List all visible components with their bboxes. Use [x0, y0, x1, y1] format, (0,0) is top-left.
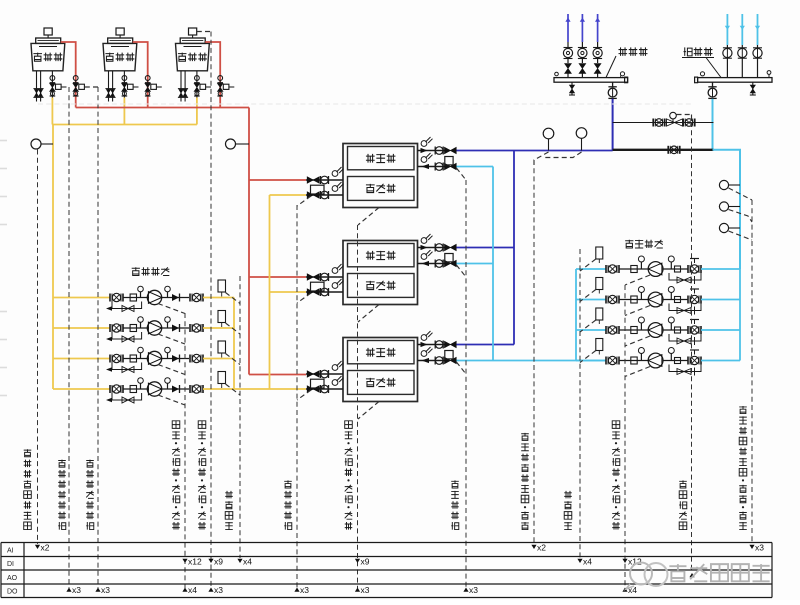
- chilled pump P3 small box: [675, 327, 681, 333]
- chiller CH2 condenser outlet pipe: [306, 291, 343, 293]
- DO point x3 tower inlet valves: [95, 588, 100, 592]
- svg-text:x2: x2: [41, 543, 50, 553]
- chilled pump row 4 stub to riser (cyan): [701, 360, 740, 362]
- chiller CH2 status signal: [358, 305, 379, 323]
- chiller CH3 condenser outlet pipe: [306, 388, 343, 390]
- chilled pump row 4 pipe: [619, 360, 648, 362]
- cooling tower CT1 drain legs: [36, 71, 38, 102]
- vertical label 水流状态: [564, 522, 572, 530]
- chiller CH1 cond outlet joint: [320, 191, 322, 199]
- cooling supply temp sensor T2: [226, 139, 236, 149]
- cooling pump P1 flow switch: [218, 280, 226, 292]
- chilled pump P2 bypass: [669, 304, 701, 311]
- cooling pump P2 check valve: [172, 325, 179, 332]
- cooling return header from towers (yellow): [52, 124, 197, 126]
- svg-text:AO: AO: [7, 575, 18, 582]
- chilled pump P4 discharge valve: [687, 357, 689, 365]
- cooling pump row 4 suction stub (yellow): [53, 388, 110, 390]
- DO point x4 chilled pumps: [622, 588, 627, 592]
- distributor branch 1 pipe (blue): [567, 14, 569, 42]
- chiller CH1 evaporator box: [348, 147, 415, 170]
- interconnect valve: [667, 146, 669, 154]
- svg-text:x3: x3: [72, 585, 81, 595]
- DI point x12 cooling pumps: [182, 559, 187, 563]
- red branch to chiller 3 condenser: [249, 374, 306, 376]
- signal stub tower CT1 inlet valve: [85, 86, 98, 88]
- yellow branch to chiller 2 condenser: [270, 291, 307, 293]
- faint left margin mark: [0, 196, 7, 198]
- chilled pump P2 discharge valve: [687, 296, 689, 304]
- cooling tower CT1 lid: [36, 38, 61, 43]
- chilled pump P4 small box: [675, 358, 681, 364]
- svg-text:x3: x3: [214, 585, 223, 595]
- cooling pump P1 discharge gauge: [167, 292, 169, 298]
- chilled pump P3 discharge valve: [687, 326, 689, 334]
- distributor label: [619, 47, 628, 56]
- signal stub tower CT3 outlet valve: [206, 86, 211, 88]
- DI point x9 tower fans: [208, 559, 213, 563]
- vertical label 冷冻水回水温度、压力、流量: [739, 522, 747, 530]
- cooling tower CT1 outlet pipe: [51, 71, 53, 98]
- chiller CH1 evap inlet pipe: [418, 166, 446, 168]
- chilled pump row 3 suction stub (cyan): [576, 329, 606, 331]
- chiller CH2 cond thermowell 1: [332, 268, 338, 274]
- flow switch 4 signal: [226, 384, 241, 395]
- chiller CH1 status signal: [358, 208, 379, 226]
- cooling pump P2 flow switch: [218, 311, 226, 323]
- chilled return riser (cyan): [492, 167, 494, 361]
- collector branch 3 valve: [757, 45, 759, 48]
- faint left margin mark: [0, 224, 7, 226]
- chiller CH3 evap outlet arrow: [421, 342, 428, 347]
- AI point x2 cooling temps: [35, 545, 40, 549]
- distributor sensor: [620, 72, 624, 76]
- chiller CH1 evap inlet valve: [445, 163, 457, 169]
- vertical label 状态、手自动、故障、启停: [612, 522, 620, 530]
- chilled supply pressure sensor: [576, 128, 587, 139]
- svg-text:x3: x3: [300, 585, 309, 595]
- cooling tower CT2 body: [103, 43, 137, 70]
- chiller CH2 evap thermowell 2: [421, 254, 427, 260]
- chilled pump row 1 stub to riser (cyan): [701, 268, 740, 270]
- cooling pump signal column joiner: [210, 302, 212, 304]
- svg-text:x3: x3: [361, 585, 370, 595]
- chiller CH1 evap outlet pipe: [418, 150, 446, 152]
- chiller CH3 casing: [343, 338, 418, 402]
- signal column condenser butterfly valve: [296, 205, 298, 588]
- yellow riser to condensers: [269, 195, 271, 389]
- cooling return temp sensor T1: [31, 139, 41, 149]
- chilled pump P2 status signal: [625, 306, 650, 316]
- signal column bypass valve control: [691, 122, 693, 573]
- chiller CH2 evap thermowell 1: [421, 238, 427, 244]
- IO table frame: [1, 542, 772, 544]
- cooling pump P4 flow switch: [218, 372, 226, 384]
- svg-text:x2: x2: [537, 543, 546, 553]
- chilled pump P3 flow switch: [596, 308, 603, 320]
- chiller CH3 evap outlet joint: [434, 341, 436, 349]
- chilled flow switch 1 signal: [580, 259, 596, 271]
- DO point x3 tower fans: [208, 588, 213, 592]
- chilled return branch chiller1 (cyan): [457, 166, 494, 168]
- vertical label 旁通阀调节: [679, 522, 687, 530]
- signal column chilled pump status: [624, 285, 626, 588]
- collector label: [684, 47, 693, 56]
- cooling pump P4 discharge valve: [189, 385, 191, 393]
- cooling tower CT1 label: [33, 53, 42, 62]
- vertical label 状态、手自动、故障、启停: [345, 522, 353, 530]
- tower CT3 inlet butterfly valve: [218, 76, 223, 81]
- chilled return main (cyan): [457, 360, 606, 362]
- DI point x9 chillers: [355, 559, 360, 563]
- watermark logo: [630, 563, 652, 585]
- chiller CH3 evap valve signal: [456, 362, 466, 374]
- svg-text:x9: x9: [361, 557, 370, 567]
- chilled supply temp sensor: [543, 128, 554, 139]
- distributor header bar: [554, 78, 628, 83]
- chiller CH1 evap valve signal: [456, 168, 466, 180]
- cooling pump row 2 suction stub (yellow): [53, 327, 110, 329]
- cooling tower CT3 lid: [180, 38, 205, 43]
- chiller CH3 condenser inlet valve: [307, 371, 319, 377]
- chilled supply branch chiller3 (navy): [457, 344, 515, 346]
- chiller CH1 condenser inlet valve: [307, 177, 319, 183]
- distributor branch 1 flowmeter: [567, 42, 569, 49]
- chilled supply drop (navy): [612, 99, 614, 151]
- chilled supply riser (navy): [513, 151, 515, 345]
- cooling pump P2: [147, 321, 161, 335]
- DO point x3 chillers: [355, 588, 360, 592]
- cooling pump P4 status signal: [158, 395, 185, 405]
- distributor branch 2 pipe (blue): [581, 14, 583, 42]
- chiller CH1 condenser box: [348, 177, 415, 201]
- chiller CH2 evap valve actuator: [445, 254, 453, 262]
- chiller CH1 evap inlet arrow: [422, 164, 430, 169]
- chiller CH1 evap thermowell 2: [421, 157, 427, 163]
- chilled pump P1 flow switch: [596, 247, 603, 259]
- cooling tower CT3 drain legs: [180, 71, 182, 102]
- chiller CH3 evap outlet valve: [445, 341, 457, 347]
- chilled pump P3: [648, 323, 663, 338]
- chiller CH2 condenser outlet valve: [307, 289, 319, 295]
- cooling pump P3 flow switch: [218, 341, 226, 353]
- tower CT2 outlet water pipe (yellow): [123, 98, 125, 125]
- chilled pump P3 bypass: [669, 334, 701, 341]
- signal stub tower CT1 outlet valve: [62, 86, 70, 88]
- cooling pump P3 suction gauge: [140, 353, 142, 359]
- cooling pump P4 check valve: [172, 386, 179, 393]
- chilled pump P4 flow switch: [596, 339, 603, 351]
- cooling tower CT3 outlet pipe: [196, 71, 198, 98]
- chiller CH3 evap inlet joint: [434, 357, 436, 365]
- cooling pump discharge header (yellow): [233, 298, 235, 390]
- chilled pump P4 inlet valve: [605, 357, 607, 365]
- chilled pump P1 status signal: [625, 275, 650, 285]
- DO point x4 cooling pumps: [182, 588, 187, 592]
- chilled pump P4 status signal: [625, 367, 650, 377]
- chiller CH3 condenser valve actuator: [311, 379, 325, 388]
- cooling pump P3 discharge valve: [189, 355, 191, 363]
- chilled pump row 2 pipe2: [663, 299, 688, 301]
- cooling tower CT3 fan box: [189, 28, 197, 35]
- cooling pump P3 status signal: [158, 365, 185, 375]
- faint left margin mark: [0, 168, 7, 170]
- chilled pump row 2 stub to riser (cyan): [701, 299, 740, 301]
- AO point bypass valve: [689, 573, 694, 577]
- signal column cooling water flow status: [239, 276, 241, 558]
- distributor branch 3 valve: [597, 59, 599, 64]
- svg-text:x4: x4: [243, 557, 252, 567]
- chiller CH1 evap thermowell 1: [421, 141, 427, 147]
- chiller CH3 evap thermowell 2: [421, 351, 427, 357]
- faint left margin mark: [0, 311, 7, 313]
- tower CT3 outlet water pipe (yellow): [196, 98, 198, 125]
- collector vent: [767, 71, 771, 75]
- chilled pump P3 strainer: [631, 327, 637, 334]
- cooling pump P2 discharge valve: [189, 324, 191, 332]
- signal column cooling pump status: [184, 313, 186, 588]
- collector branch 2 pipe (cyan): [741, 14, 743, 45]
- chilled pump row 1 suction stub (cyan): [576, 268, 606, 270]
- chilled pump row 3 stub to riser (cyan): [701, 329, 740, 331]
- chilled pump P1 small box: [675, 266, 681, 272]
- cooling pumps label: [132, 267, 140, 275]
- distributor branch 1 arrow: [565, 18, 570, 22]
- cooling tower CT2 fan box: [116, 28, 124, 35]
- chiller CH2 condenser inlet pipe: [306, 276, 343, 278]
- svg-text:x3: x3: [101, 585, 110, 595]
- chilled pump P2 flow switch: [596, 278, 603, 290]
- cooling pump P2 suction valve: [109, 324, 111, 332]
- chiller CH2 evap outlet joint: [434, 244, 436, 252]
- chiller CH1 evap outlet arrow: [421, 148, 428, 153]
- chiller CH3 evap outlet pipe: [418, 344, 446, 346]
- flow switch 2 signal: [226, 323, 241, 334]
- cooling pump row 2 pipe2: [162, 327, 189, 329]
- chilled pump P4 gauge 2: [670, 354, 672, 361]
- cooling tower CT3 label: [178, 53, 187, 62]
- chiller CH1 evap outlet joint: [434, 147, 436, 155]
- cooling pump P4: [147, 382, 161, 396]
- main interconnect pipe: [613, 149, 714, 151]
- collector branch 2 arrow: [740, 26, 745, 30]
- vertical label 冷冻水供水温度、压力: [521, 522, 529, 530]
- chilled pumps label: [625, 240, 633, 248]
- svg-text:x4: x4: [188, 585, 197, 595]
- cooling tower CT2 lid: [108, 38, 133, 43]
- chiller CH3 evap inlet valve: [445, 357, 457, 363]
- bypass pipe upper: [613, 122, 714, 124]
- chiller CH3 cond thermowell 1: [332, 365, 338, 371]
- chiller CH2 condenser label: [366, 281, 375, 290]
- cooling pump row 2 discharge stub (yellow): [203, 327, 234, 329]
- cooling tower CT1 body: [31, 43, 65, 70]
- vertical label 冷却塔出水蝶阀: [58, 522, 66, 530]
- chilled return T sensor: [719, 180, 728, 189]
- chilled pump P1 discharge valve: [687, 265, 689, 273]
- chiller CH3 condenser box: [348, 371, 415, 395]
- AI point x3 chilled return: [749, 545, 754, 549]
- chilled pump P1 gauge 2: [670, 262, 672, 269]
- chilled pump P4 strainer: [631, 357, 637, 364]
- chiller CH1 evaporator label: [366, 154, 375, 163]
- chiller CH1 evap valve actuator: [445, 157, 453, 165]
- DO point x3 evaporator valves: [463, 588, 468, 592]
- flow switch 1 signal: [226, 293, 241, 304]
- signal column cooling tower outlet valve: [68, 87, 70, 588]
- distributor outlet valve: [612, 82, 614, 86]
- distributor branch 2 arrow: [580, 18, 585, 22]
- chilled return F sensor: [719, 223, 728, 232]
- tower CT1 outlet water pipe (yellow): [51, 98, 53, 125]
- bypass valve inlet: [652, 119, 654, 127]
- collector branch 3 arrow: [755, 26, 760, 30]
- chiller CH2 evap outlet arrow: [421, 245, 428, 250]
- cooling pump P1 discharge valve: [189, 294, 191, 302]
- chiller CH3 cond valve signal: [297, 390, 311, 400]
- svg-text:x4: x4: [583, 557, 592, 567]
- chilled pump P2: [648, 292, 663, 307]
- signal column chilled supply T/P sensors: [533, 160, 535, 544]
- cooling pump P2 bypass: [112, 332, 142, 339]
- faint left margin mark: [0, 140, 7, 142]
- collector inlet valve: [712, 82, 714, 86]
- chiller CH3 evap inlet pipe: [418, 360, 446, 362]
- vertical label 冷冻水蝶阀: [451, 522, 459, 530]
- chiller CH2 evaporator label: [366, 251, 375, 260]
- DI point x12 chilled pumps: [622, 559, 627, 563]
- cooling pump row 1 pipe2: [162, 297, 189, 299]
- cooling pump P3 check valve: [172, 355, 179, 362]
- svg-text:x3: x3: [755, 543, 764, 553]
- cooling return downcomer (yellow): [52, 125, 54, 390]
- signal stub tower CT2 inlet valve: [157, 86, 164, 88]
- chilled pump row 4 pipe2: [663, 360, 688, 362]
- vertical label 状态、手自动、故障、启停: [172, 522, 180, 530]
- cooling pump row 3 pipe2: [162, 358, 189, 360]
- chilled pump P4 gauge 1: [640, 354, 642, 361]
- chilled return P sensor: [719, 202, 728, 211]
- tower CT3 inlet pipe (red): [205, 42, 220, 108]
- cooling tower CT1 fan box: [44, 28, 52, 35]
- chiller CH2 cond valve signal: [297, 293, 311, 303]
- chilled pump row 3 pipe: [619, 329, 648, 331]
- signal line tower CT3 fan: [197, 31, 211, 33]
- cooling supply header to towers (red): [76, 107, 249, 109]
- cooling pump row 4 pipe: [123, 388, 149, 390]
- chiller CH3 condenser label: [366, 378, 375, 387]
- signal column evaporator butterfly valve: [465, 180, 467, 588]
- chiller CH2 casing: [343, 241, 418, 305]
- svg-text:AI: AI: [7, 548, 14, 555]
- cooling pump row 1 pipe: [123, 297, 149, 299]
- chilled pump P4: [648, 353, 663, 368]
- chiller CH1 cond inlet joint: [320, 176, 322, 184]
- chiller CH2 evap valve signal: [456, 265, 466, 277]
- distributor branch 2 valve: [581, 59, 583, 64]
- distributor branch 3 pipe (blue): [597, 14, 599, 42]
- signal column chiller status: [357, 225, 359, 588]
- cooling tower CT2 outlet pipe: [123, 71, 125, 98]
- chilled pump P3 gauge 1: [640, 323, 642, 330]
- distributor branch 3 flowmeter: [597, 42, 599, 49]
- chiller CH2 condenser box: [348, 274, 415, 298]
- chiller CH3 evap valve actuator: [445, 351, 453, 359]
- svg-text:DO: DO: [7, 589, 18, 596]
- watermark text: [669, 564, 686, 581]
- red branch to chiller 2 condenser: [249, 276, 306, 278]
- cooling pump P3 discharge gauge: [167, 353, 169, 359]
- cooling pump P1 suction gauge: [140, 292, 142, 298]
- faint controller bus: [38, 103, 692, 105]
- bypass valve signal: [677, 114, 692, 116]
- cooling pump P3 bypass: [112, 363, 142, 370]
- chilled supply sensor signals: [534, 152, 549, 165]
- distributor branch 3 arrow: [595, 18, 600, 22]
- tower CT1 inlet pipe (red): [61, 42, 76, 108]
- yellow branch to chiller 3 condenser: [234, 388, 306, 390]
- faint left margin mark: [0, 395, 7, 397]
- chilled pump row 3 pipe2: [663, 329, 688, 331]
- chilled pump P3 gauge 2: [670, 323, 672, 330]
- chiller CH2 evap inlet arrow: [422, 261, 430, 266]
- cooling pump P2 strainer: [130, 325, 136, 332]
- collector branch 1 arrow: [725, 26, 730, 30]
- chilled pump P3 inlet valve: [605, 326, 607, 334]
- red branch to chiller 1 condenser: [249, 179, 306, 181]
- chiller CH2 condenser valve actuator: [311, 282, 325, 291]
- distributor vent: [555, 72, 559, 76]
- chiller CH2 cond thermowell 2: [332, 283, 338, 289]
- distributor drain: [571, 82, 573, 95]
- chilled pump P1: [648, 262, 663, 277]
- chilled pump P1 gauge 1: [640, 262, 642, 269]
- cooling pump P4 suction gauge: [140, 383, 142, 389]
- cooling pump row 2 pipe: [123, 327, 149, 329]
- faint left margin mark: [0, 339, 7, 341]
- chiller CH1 condenser outlet pipe: [306, 194, 343, 196]
- cooling pump row 4 discharge stub (yellow): [203, 388, 234, 390]
- svg-text:DI: DI: [7, 561, 14, 568]
- cooling tower CT2 label: [105, 53, 114, 62]
- tower CT1 outlet butterfly valve: [50, 76, 55, 81]
- collector drain: [752, 82, 754, 95]
- cooling pump P4 bypass: [112, 393, 142, 400]
- chilled flow switch 3 signal: [580, 320, 596, 332]
- chiller CH3 evap thermowell 1: [421, 335, 427, 341]
- signal column chilled return T/P/F sensors: [751, 200, 753, 544]
- cooling pump row 1 discharge stub (yellow): [203, 297, 234, 299]
- distributor branch 1 valve: [567, 59, 569, 64]
- chiller CH2 evap outlet valve: [445, 244, 457, 250]
- chiller CH3 status signal: [358, 402, 379, 420]
- signal column cooling water supply/return temperature: [37, 150, 39, 545]
- chilled supply branch chiller2 (navy): [457, 247, 515, 249]
- cooling pump row 4 pipe2: [162, 388, 189, 390]
- tower CT2 inlet butterfly valve: [145, 76, 150, 81]
- chiller CH1 condenser label: [366, 184, 375, 193]
- collector branch 3 pipe (cyan): [757, 14, 759, 45]
- chilled pump row 2 pipe: [619, 299, 648, 301]
- signal column cooling tower inlet valve: [97, 87, 99, 588]
- chiller CH3 cond outlet joint: [320, 385, 322, 393]
- chilled pump row 2 suction stub (cyan): [576, 299, 606, 301]
- cooling tower CT3 body: [176, 43, 210, 70]
- cooling pump P1 bypass: [112, 302, 142, 309]
- chiller CH1 condenser inlet pipe: [306, 179, 343, 181]
- vertical label 状态、手自动、故障、启停: [198, 522, 206, 530]
- cooling pump row 3 suction stub (yellow): [53, 358, 110, 360]
